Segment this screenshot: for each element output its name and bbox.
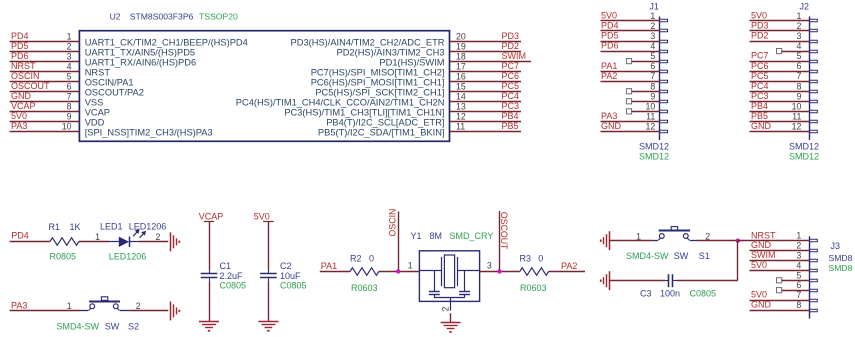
- svg-text:GND: GND: [601, 121, 622, 131]
- wire net PC3 to U2 pin 13: [450, 111, 522, 113]
- svg-text:7: 7: [796, 290, 801, 300]
- wire stub J3 pin 5: [777, 278, 810, 283]
- svg-text:SMD4-SW: SMD4-SW: [626, 251, 669, 261]
- svg-text:PD6: PD6: [601, 41, 619, 51]
- svg-text:7: 7: [67, 91, 72, 101]
- wire PD4 to R1: [10, 241, 50, 243]
- svg-text:6: 6: [67, 81, 72, 91]
- svg-text:R0603: R0603: [520, 283, 547, 293]
- svg-text:UART1_TX/AIN5/(HS)PD5: UART1_TX/AIN5/(HS)PD5: [85, 47, 195, 57]
- wire R1 to LED1: [79, 241, 109, 243]
- svg-text:R0805: R0805: [50, 252, 77, 262]
- wire 5V0 rail down to C2: [268, 222, 270, 270]
- wire net PD4 to J1 pin 2: [601, 30, 660, 32]
- svg-text:LED1206: LED1206: [129, 221, 167, 231]
- svg-text:PB4: PB4: [751, 101, 768, 111]
- svg-text:12: 12: [646, 121, 656, 131]
- svg-text:5V0: 5V0: [751, 290, 767, 300]
- svg-text:NRST: NRST: [11, 61, 36, 71]
- svg-text:R2: R2: [350, 253, 362, 263]
- wire net PD3 to U2 pin 20: [450, 41, 522, 43]
- svg-text:3: 3: [487, 261, 492, 271]
- svg-text:1: 1: [408, 261, 413, 271]
- svg-text:PB4: PB4: [502, 111, 519, 121]
- svg-text:8: 8: [796, 300, 801, 310]
- svg-text:4: 4: [67, 61, 72, 71]
- svg-text:VCAP: VCAP: [85, 107, 110, 117]
- wire Y1 pin 3 to R3: [480, 271, 520, 273]
- capacitor C2: [260, 270, 277, 282]
- wire net VCAP to U2 pin 8: [10, 111, 80, 113]
- svg-text:J1: J1: [649, 1, 659, 11]
- wire PA3 to S2: [10, 310, 81, 312]
- svg-text:14: 14: [456, 91, 466, 101]
- wire VCAP rail down to C1: [209, 222, 211, 270]
- svg-text:PC7: PC7: [751, 51, 769, 61]
- IC U2 STM8S003F3P6 body: [79, 31, 449, 142]
- svg-text:PB4(T)/I2C_SCL[ADC_ETR]: PB4(T)/I2C_SCL[ADC_ETR]: [326, 117, 444, 127]
- svg-text:PD5: PD5: [11, 41, 29, 51]
- wire OSCOUT stub: [499, 211, 501, 271]
- svg-text:10: 10: [62, 121, 72, 131]
- ground (S2 row): [171, 301, 181, 320]
- svg-text:12: 12: [456, 111, 466, 121]
- svg-text:1: 1: [796, 11, 801, 21]
- svg-text:4: 4: [796, 260, 801, 270]
- svg-text:8: 8: [796, 81, 801, 91]
- svg-text:11: 11: [646, 111, 655, 121]
- svg-text:5: 5: [796, 270, 801, 280]
- svg-text:PC4(HS)/TIM1_CH4/CLK_CCO/AIN2/: PC4(HS)/TIM1_CH4/CLK_CCO/AIN2/TIM1_CH2N: [236, 97, 445, 107]
- svg-text:PC5(HS)/SPI_SCK[TIM2_CH1]: PC5(HS)/SPI_SCK[TIM2_CH1]: [315, 87, 444, 97]
- svg-text:2: 2: [650, 21, 655, 31]
- wire net GND to J3 pin 8: [750, 310, 810, 312]
- svg-text:3: 3: [67, 51, 72, 61]
- svg-text:R1: R1: [49, 222, 61, 232]
- junction OSCIN node: [396, 269, 400, 273]
- svg-text:6: 6: [796, 61, 801, 71]
- svg-text:PD3(HS)/AIN4/TIM2_CH2/ADC_ETR: PD3(HS)/AIN4/TIM2_CH2/ADC_ETR: [291, 37, 445, 47]
- svg-text:TSSOP20: TSSOP20: [199, 12, 238, 22]
- wire S2 to ground: [130, 310, 169, 312]
- wire net 5V0 to J1 pin 1: [601, 20, 660, 22]
- wire net GND to J3 pin 2: [750, 250, 810, 252]
- svg-text:UART1_CK/TIM2_CH1/BEEP/(HS)PD4: UART1_CK/TIM2_CH1/BEEP/(HS)PD4: [85, 37, 248, 47]
- wire net PC3 to J2 pin 9: [750, 101, 810, 103]
- svg-text:3: 3: [650, 31, 655, 41]
- svg-text:U2: U2: [110, 12, 121, 22]
- wire stub J2 pin 4: [777, 48, 810, 53]
- connector J1 body: [660, 17, 668, 141]
- svg-text:SMD12: SMD12: [639, 142, 669, 152]
- svg-text:11: 11: [456, 121, 465, 131]
- svg-text:OSCOUT: OSCOUT: [499, 212, 509, 250]
- svg-text:PA3: PA3: [601, 111, 617, 121]
- svg-text:GND: GND: [751, 300, 772, 310]
- svg-text:100n: 100n: [660, 289, 680, 299]
- svg-text:9: 9: [650, 91, 655, 101]
- svg-text:SMD12: SMD12: [789, 152, 819, 162]
- svg-text:C0805: C0805: [280, 280, 307, 290]
- svg-text:PC6: PC6: [751, 61, 769, 71]
- svg-text:PC3(HS)/TIM1_CH3[TLI][TIM1_CH1: PC3(HS)/TIM1_CH3[TLI][TIM1_CH1N]: [284, 107, 444, 117]
- svg-text:5V0: 5V0: [751, 260, 767, 270]
- svg-text:PD3: PD3: [502, 31, 520, 41]
- svg-text:SW: SW: [105, 321, 120, 331]
- svg-text:2: 2: [156, 232, 161, 242]
- wire S1 to NRST junction: [697, 240, 738, 242]
- svg-text:PA3: PA3: [11, 300, 27, 310]
- svg-text:OSCIN/PA1: OSCIN/PA1: [85, 77, 134, 87]
- svg-text:S1: S1: [699, 251, 710, 261]
- wire net GND to U2 pin 7: [10, 101, 80, 103]
- svg-text:15: 15: [456, 81, 466, 91]
- capacitor C3: [665, 274, 677, 287]
- svg-text:17: 17: [456, 61, 466, 71]
- svg-text:SMD12: SMD12: [639, 152, 669, 162]
- svg-text:PC4: PC4: [751, 81, 769, 91]
- wire net OSCOUT to U2 pin 6: [10, 91, 80, 93]
- wire net NRST to U2 pin 4: [10, 71, 80, 73]
- svg-text:2: 2: [136, 301, 141, 311]
- svg-text:SWIM: SWIM: [751, 250, 776, 260]
- wire C1 to ground: [209, 282, 211, 322]
- svg-text:2: 2: [796, 21, 801, 31]
- wire stub J1 pin 8: [626, 89, 659, 94]
- wire stub J3 pin 6: [777, 288, 810, 293]
- svg-text:1K: 1K: [70, 222, 81, 232]
- svg-text:4: 4: [650, 41, 655, 51]
- wire LED1 to ground: [139, 241, 168, 243]
- wire net PD5 to U2 pin 2: [10, 51, 80, 53]
- wire net PD6 to U2 pin 3: [10, 61, 80, 63]
- svg-text:UART1_RX/AIN6/(HS)PD6: UART1_RX/AIN6/(HS)PD6: [85, 57, 196, 67]
- svg-text:2: 2: [796, 241, 801, 251]
- svg-text:VCAP: VCAP: [11, 101, 36, 111]
- wire net PB4 to J2 pin 10: [750, 111, 810, 113]
- svg-text:5V0: 5V0: [751, 11, 767, 21]
- svg-text:PC7(HS)/SPI_MISO[TIM1_CH2]: PC7(HS)/SPI_MISO[TIM1_CH2]: [311, 67, 445, 77]
- svg-text:9: 9: [796, 91, 801, 101]
- svg-text:LED1206: LED1206: [109, 251, 147, 261]
- svg-text:PD2: PD2: [751, 31, 769, 41]
- svg-text:2: 2: [440, 307, 450, 312]
- svg-text:16: 16: [456, 71, 466, 81]
- wire net PB5 to U2 pin 11: [450, 131, 522, 133]
- connector J3 body: [809, 236, 817, 318]
- wire ground to C3: [610, 280, 665, 282]
- svg-text:SWIM: SWIM: [502, 51, 527, 61]
- svg-text:PA1: PA1: [601, 61, 617, 71]
- svg-text:7: 7: [650, 71, 655, 81]
- svg-text:PA3: PA3: [11, 121, 27, 131]
- svg-text:[SPI_NSS]TIM2_CH3/(HS)PA3: [SPI_NSS]TIM2_CH3/(HS)PA3: [85, 127, 213, 137]
- svg-text:PD1(HS)/SWIM: PD1(HS)/SWIM: [379, 57, 444, 67]
- wire net PC4 to U2 pin 14: [450, 101, 522, 103]
- svg-text:R3: R3: [520, 253, 532, 263]
- svg-text:Y1: Y1: [411, 231, 422, 241]
- svg-text:PB5: PB5: [751, 111, 768, 121]
- LED LED1: [109, 229, 146, 247]
- svg-text:C3: C3: [640, 289, 652, 299]
- svg-text:6: 6: [796, 280, 801, 290]
- wire NRST junction down to C3: [737, 241, 739, 281]
- svg-text:2: 2: [67, 41, 72, 51]
- svg-text:7: 7: [796, 71, 801, 81]
- wire net PC4 to J2 pin 8: [750, 91, 810, 93]
- wire net PC7 to U2 pin 17: [450, 71, 522, 73]
- svg-text:1: 1: [67, 31, 72, 41]
- ground (C3): [600, 271, 610, 290]
- junction NRST node: [736, 239, 740, 243]
- svg-text:STM8S003F3P6: STM8S003F3P6: [130, 12, 194, 22]
- svg-text:PA2: PA2: [561, 261, 577, 271]
- svg-text:J3: J3: [831, 241, 841, 251]
- svg-text:SMD8: SMD8: [829, 263, 853, 273]
- resistor R1: [50, 238, 79, 246]
- wire net PD3 to J2 pin 2: [750, 30, 810, 32]
- wire OSCIN stub: [398, 212, 400, 272]
- svg-text:PA1: PA1: [321, 261, 337, 271]
- wire NRST junction to J3 pin 1: [738, 240, 810, 242]
- svg-text:19: 19: [456, 41, 466, 51]
- wire net PC5 to U2 pin 15: [450, 91, 522, 93]
- svg-text:PC5: PC5: [751, 71, 769, 81]
- wire stub J1 pin 5: [626, 59, 659, 64]
- svg-text:8M: 8M: [430, 231, 443, 241]
- wire net 5V0 to J3 pin 4: [750, 270, 810, 272]
- svg-text:NRST: NRST: [751, 230, 776, 240]
- svg-text:PC6(HS)/SPI_MOSI[TIM1_CH1]: PC6(HS)/SPI_MOSI[TIM1_CH1]: [311, 77, 445, 87]
- svg-text:PD3: PD3: [751, 21, 769, 31]
- svg-text:PD5: PD5: [601, 31, 619, 41]
- wire net SWIM to U2 pin 18: [450, 61, 532, 63]
- svg-text:20: 20: [456, 31, 466, 41]
- wire net 5V0 to U2 pin 9: [10, 121, 80, 123]
- svg-text:PC4: PC4: [502, 91, 520, 101]
- wire net 5V0 to J2 pin 1: [750, 20, 810, 22]
- svg-text:PC7: PC7: [502, 61, 520, 71]
- svg-text:PD4: PD4: [11, 231, 29, 241]
- svg-text:10: 10: [792, 101, 802, 111]
- svg-text:GND: GND: [751, 121, 772, 131]
- svg-text:12: 12: [792, 121, 802, 131]
- svg-text:4: 4: [796, 41, 801, 51]
- wire net PC7 to J2 pin 5: [750, 61, 810, 63]
- svg-text:PB5(T)/I2C_SDA/[TIM1_BKIN]: PB5(T)/I2C_SDA/[TIM1_BKIN]: [318, 127, 445, 137]
- svg-text:5: 5: [650, 51, 655, 61]
- svg-text:1: 1: [95, 232, 100, 242]
- svg-text:3: 3: [796, 31, 801, 41]
- wire R2 to Y1 pin 1: [379, 271, 420, 273]
- svg-text:PA2: PA2: [601, 71, 617, 81]
- wire net PD4 to U2 pin 1: [10, 41, 80, 43]
- switch S1: [653, 227, 697, 241]
- junction OSCOUT node: [497, 269, 501, 273]
- wire net SWIM to J3 pin 3: [750, 260, 810, 262]
- wire Y1 pin 2 to ground: [450, 313, 452, 322]
- svg-text:1: 1: [650, 11, 655, 21]
- wire net PD2 to J2 pin 3: [750, 41, 810, 43]
- svg-text:VSS: VSS: [85, 97, 104, 107]
- svg-text:PD2: PD2: [502, 41, 520, 51]
- svg-text:SW: SW: [674, 251, 689, 261]
- svg-text:J2: J2: [800, 1, 810, 11]
- crystal Y1: [419, 251, 479, 311]
- wire ground to S1: [610, 240, 653, 242]
- svg-text:PD6: PD6: [11, 51, 29, 61]
- svg-text:6: 6: [650, 61, 655, 71]
- wire net 5V0 to J3 pin 7: [750, 300, 810, 302]
- wire net PD5 to J1 pin 3: [601, 41, 660, 43]
- resistor R2: [350, 268, 379, 276]
- svg-text:VDD: VDD: [85, 117, 105, 127]
- svg-text:PD2(HS)/AIN3/TIM2_CH3: PD2(HS)/AIN3/TIM2_CH3: [337, 47, 445, 57]
- svg-text:5V0: 5V0: [601, 11, 617, 21]
- svg-text:1: 1: [67, 301, 72, 311]
- connector J2 body: [809, 17, 817, 141]
- wire net PC6 to J2 pin 6: [750, 71, 810, 73]
- svg-text:OSCOUT: OSCOUT: [11, 81, 50, 91]
- wire C3 to NRST junction: [677, 280, 738, 282]
- svg-text:OSCIN: OSCIN: [388, 209, 398, 237]
- svg-text:PD4: PD4: [601, 21, 619, 31]
- svg-text:8: 8: [67, 101, 72, 111]
- svg-text:VCAP: VCAP: [199, 212, 224, 222]
- wire net PB4 to U2 pin 12: [450, 121, 522, 123]
- svg-text:GND: GND: [11, 91, 32, 101]
- svg-text:5: 5: [796, 51, 801, 61]
- svg-text:8: 8: [650, 81, 655, 91]
- svg-text:SMD4-SW: SMD4-SW: [57, 321, 100, 331]
- svg-text:S2: S2: [128, 321, 139, 331]
- ground (Y1): [441, 323, 461, 333]
- svg-text:NRST: NRST: [85, 67, 111, 77]
- svg-text:GND: GND: [751, 240, 772, 250]
- svg-text:OSCIN: OSCIN: [11, 71, 40, 81]
- wire net OSCIN to U2 pin 5: [10, 81, 80, 83]
- resistor R3: [520, 268, 549, 276]
- ground (S1 row): [600, 231, 610, 250]
- svg-text:PD4: PD4: [11, 31, 29, 41]
- wire C2 to ground: [268, 282, 270, 322]
- wire net PA1 to J1 pin 6: [601, 71, 660, 73]
- wire PA1 to R2: [320, 271, 350, 273]
- svg-text:0: 0: [538, 253, 543, 263]
- svg-text:LED1: LED1: [100, 221, 123, 231]
- wire net PC5 to J2 pin 7: [750, 81, 810, 83]
- svg-text:C1: C1: [220, 261, 232, 271]
- wire R3 to PA2: [549, 271, 585, 273]
- svg-text:11: 11: [792, 111, 801, 121]
- wire net GND to J1 pin 12: [601, 131, 660, 133]
- svg-text:SMD8: SMD8: [829, 253, 853, 263]
- svg-text:18: 18: [456, 51, 466, 61]
- svg-text:R0603: R0603: [351, 283, 378, 293]
- svg-text:5: 5: [67, 71, 72, 81]
- wire net PA2 to J1 pin 7: [601, 81, 660, 83]
- svg-text:5V0: 5V0: [11, 111, 27, 121]
- svg-text:C0805: C0805: [220, 280, 247, 290]
- wire net GND to J2 pin 12: [750, 131, 810, 133]
- svg-text:PC3: PC3: [751, 91, 769, 101]
- wire stub J1 pin 9: [626, 99, 659, 104]
- wire net PA3 to J1 pin 11: [601, 121, 660, 123]
- ground (C1): [199, 322, 219, 332]
- wire stub J1 pin 10: [626, 109, 659, 114]
- wire net PD6 to J1 pin 4: [601, 51, 660, 53]
- svg-text:1: 1: [636, 231, 641, 241]
- svg-text:0: 0: [369, 253, 374, 263]
- ground (C2): [258, 322, 278, 332]
- svg-text:1: 1: [796, 231, 801, 241]
- svg-text:10: 10: [646, 101, 656, 111]
- switch S2: [81, 297, 130, 311]
- capacitor C1: [201, 270, 218, 282]
- svg-text:9: 9: [67, 111, 72, 121]
- wire net PD2 to U2 pin 19: [450, 51, 522, 53]
- ground (LED row): [171, 232, 181, 251]
- svg-text:PB5: PB5: [502, 121, 519, 131]
- svg-text:SMD_CRY: SMD_CRY: [450, 231, 494, 241]
- svg-text:C0805: C0805: [690, 289, 717, 299]
- svg-text:PC6: PC6: [502, 71, 520, 81]
- svg-text:SMD12: SMD12: [789, 142, 819, 152]
- svg-text:C2: C2: [280, 261, 292, 271]
- wire net PA3 to U2 pin 10: [10, 131, 80, 133]
- svg-text:PC5: PC5: [502, 81, 520, 91]
- wire net PB5 to J2 pin 11: [750, 121, 810, 123]
- svg-text:3: 3: [796, 251, 801, 261]
- svg-text:5V0: 5V0: [254, 212, 270, 222]
- svg-text:PC3: PC3: [502, 101, 520, 111]
- svg-text:13: 13: [456, 101, 466, 111]
- wire net PC6 to U2 pin 16: [450, 81, 522, 83]
- svg-text:OSCOUT/PA2: OSCOUT/PA2: [85, 87, 144, 97]
